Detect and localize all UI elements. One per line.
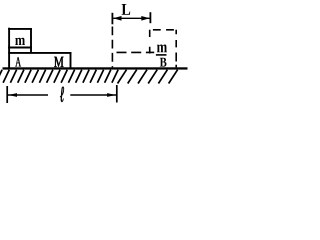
block m on cart (solid box) bbox=[8, 28, 32, 53]
dimension L left tick bbox=[111, 13, 113, 24]
dimension L right arrowhead bbox=[141, 16, 150, 21]
dimension L line bbox=[112, 17, 150, 19]
cart at position B: dashed right edge bbox=[175, 30, 177, 68]
dimension l line right segment bbox=[70, 94, 116, 96]
dimension L right tick bbox=[149, 12, 151, 23]
block m at B: dashed top edge bbox=[150, 29, 177, 31]
dimension l line left segment bbox=[8, 94, 48, 96]
label M bbox=[54, 57, 63, 67]
cart at position B: dashed top edge bbox=[113, 51, 155, 53]
label l (italic) bbox=[60, 87, 64, 102]
label B bbox=[160, 58, 167, 67]
label m (at B) bbox=[157, 44, 167, 52]
ground hatching bbox=[0, 70, 178, 84]
cart M at position A (solid outline) bbox=[8, 28, 71, 68]
cart at position B: dashed left edge bbox=[111, 27, 113, 68]
label A bbox=[15, 57, 21, 66]
label L bbox=[122, 4, 131, 15]
dimension L left arrowhead bbox=[113, 16, 122, 21]
dimension l left tick bbox=[6, 86, 8, 103]
dimension l right tick bbox=[116, 85, 118, 103]
block m at B: dashed left edge bbox=[149, 30, 151, 54]
ground line bbox=[3, 67, 188, 69]
label m (on cart) bbox=[15, 38, 25, 45]
dimension l left arrowhead bbox=[8, 93, 17, 97]
block m at B: dashed bottom edge bbox=[156, 54, 167, 56]
dimension l right arrowhead bbox=[107, 93, 116, 97]
